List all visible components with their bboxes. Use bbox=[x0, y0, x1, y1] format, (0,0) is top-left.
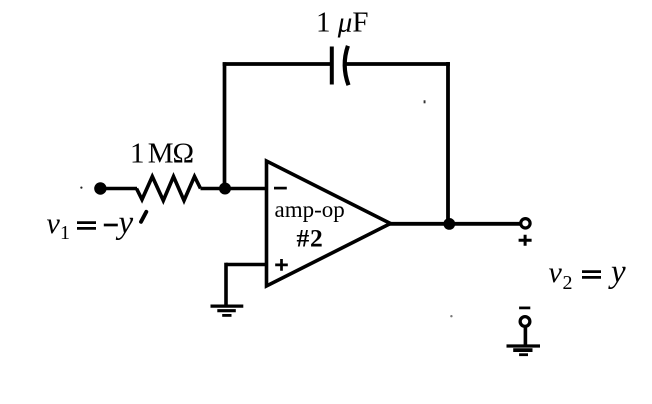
label v2 = y bbox=[549, 254, 627, 294]
svg-text:v: v bbox=[549, 256, 563, 289]
input terminal dot bbox=[94, 182, 106, 194]
svg-text:1 μF: 1 μF bbox=[316, 6, 368, 38]
output plus polarity label bbox=[519, 235, 532, 246]
wire feedback right vertical bbox=[446, 62, 450, 224]
wire non-inverting input vertical down to ground bbox=[224, 263, 228, 306]
ground symbol right bbox=[507, 346, 541, 355]
svg-text:y: y bbox=[116, 205, 134, 241]
svg-text:y: y bbox=[608, 254, 626, 290]
op-amp inverting input minus sign bbox=[274, 187, 287, 190]
capacitor C (1 uF) right curved plate bbox=[345, 46, 349, 85]
svg-text:1: 1 bbox=[60, 222, 70, 244]
node junction dot at output bbox=[443, 218, 455, 230]
lower terminal open circle bbox=[520, 317, 530, 327]
svg-text:1 MΩ: 1 MΩ bbox=[130, 138, 194, 170]
op-amp label amp-op bbox=[275, 197, 345, 222]
wire op-amp output bbox=[388, 222, 521, 226]
label 1 uF bbox=[316, 6, 368, 38]
wire non-inverting input horizontal bbox=[226, 263, 268, 267]
svg-text:#2: #2 bbox=[297, 224, 324, 253]
op-amp label #2 bbox=[297, 224, 324, 253]
wire feedback left vertical bbox=[223, 62, 227, 188]
wire lower terminal stem to ground bbox=[524, 327, 528, 347]
wire input to resistor bbox=[100, 187, 137, 191]
op-amp U amp-op #2 triangle bbox=[267, 161, 391, 286]
svg-text:2: 2 bbox=[563, 272, 573, 294]
node junction dot at inverting input bbox=[219, 183, 231, 195]
label 1 MOhm bbox=[130, 138, 194, 170]
op-amp non-inverting input plus sign bbox=[275, 259, 288, 271]
wire resistor to op-amp inverting input bbox=[201, 187, 269, 191]
label v1 = -y' bbox=[47, 205, 147, 244]
output terminal open circle bbox=[521, 219, 530, 228]
ground symbol left bbox=[211, 306, 244, 315]
wire top-left horizontal (junction to capacitor) bbox=[223, 62, 330, 66]
wire top-right horizontal (capacitor to right corner) bbox=[347, 62, 450, 66]
capacitor C (1 uF) left plate bbox=[330, 47, 334, 85]
resistor R 1 MOhm zigzag bbox=[137, 177, 201, 201]
svg-text:v: v bbox=[47, 207, 61, 240]
svg-text:amp-op: amp-op bbox=[275, 197, 345, 222]
lower terminal minus polarity label bbox=[519, 307, 530, 310]
